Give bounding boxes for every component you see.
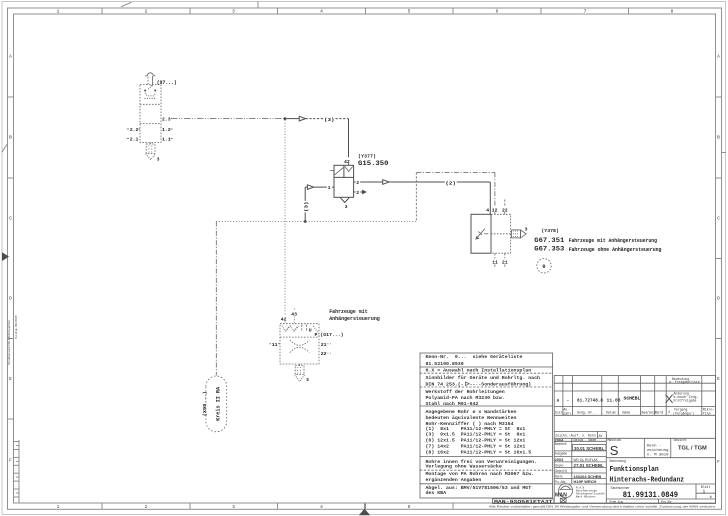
air spring bellows arc upper: [290, 340, 310, 345]
wire vertical to junction C: [304, 187, 306, 221]
label (3) rotated on vertical wire: [302, 201, 309, 213]
svg-text:C: C: [9, 216, 12, 222]
svg-text:F: F: [717, 459, 720, 465]
svg-text:2: 2: [356, 190, 359, 196]
svg-text:81.52100.8930: 81.52100.8930: [426, 361, 464, 367]
svg-text:11: 11: [272, 342, 278, 348]
svg-text:E: E: [717, 376, 720, 382]
svg-text:(1) 8x1 PA11/12-PHLY = St: (1) 8x1 PA11/12-PHLY = St 8x1: [426, 426, 526, 432]
wire junction A to arrow: [285, 118, 299, 120]
notes table row line 2 dashed: [420, 372, 553, 374]
left band row letters: [9, 54, 12, 464]
svg-text:G15.350: G15.350: [358, 160, 389, 168]
svg-text:(3): (3): [303, 201, 309, 212]
port 42 stub: [348, 163, 350, 165]
svg-text:C: C: [717, 216, 720, 222]
relay valve G15.350 body: [334, 165, 354, 197]
svg-text:WD Zg. RUFLAK: WD Zg. RUFLAK: [574, 458, 599, 462]
svg-text:Kreis II RA: Kreis II RA: [216, 386, 222, 421]
port 2 plugged label: [356, 189, 361, 196]
revision header labels: [555, 407, 664, 415]
svg-text:des KBA: des KBA: [426, 490, 447, 496]
notes table row line 3 dashed: [420, 386, 553, 388]
wire arrow to label (3) dashed: [306, 118, 323, 120]
svg-text:A: A: [9, 54, 12, 60]
port 1 label: [327, 184, 332, 191]
svg-text:Rohr-Kennziffer ( ) nach M3164: Rohr-Kennziffer ( ) nach M3164: [426, 421, 514, 427]
svg-text:Datum: Datum: [574, 438, 584, 442]
drawing standard row text: [555, 434, 602, 438]
MAN logo bridge: [560, 486, 572, 489]
check valve inside (97...): [144, 85, 156, 99]
svg-text:(6) 12x1.5 PA11/12-PHLY = St: (6) 12x1.5 PA11/12-PHLY = St 12x1: [426, 438, 526, 444]
revision bubble circle: [537, 259, 551, 273]
bottom band column numbers: [57, 504, 411, 510]
svg-text:Datum: Datum: [606, 411, 616, 415]
notes table row line 1: [420, 366, 553, 368]
air spring unit diagonal: [313, 326, 318, 334]
svg-text:B: B: [9, 135, 12, 141]
svg-text:2.3: 2.3: [162, 117, 171, 123]
air spring port 22 label: [321, 351, 331, 357]
svg-text:D: D: [717, 296, 720, 302]
bottom band column ticks: [102, 503, 453, 509]
svg-text:(Y377): (Y377): [358, 153, 376, 159]
main grid h-line under kennzeichnung: [606, 457, 715, 459]
svg-text:Werk München: Werk München: [576, 494, 596, 498]
svg-text:Werkstoff der Rohrleitungen: Werkstoff der Rohrleitungen: [426, 389, 505, 395]
MAN logo small stamp: [560, 498, 566, 502]
junction C dot: [304, 220, 307, 223]
Y378 actuator symbol in left cell: [476, 229, 489, 239]
ers fuer divider: [658, 499, 660, 504]
svg-text:Hinterachs-Redundanz: Hinterachs-Redundanz: [610, 477, 685, 485]
air spring port 11 label: [269, 342, 280, 348]
air spring unit port 43 stubs: [293, 309, 295, 324]
microfilm cell label: [703, 407, 715, 415]
revision table h-line 3: [554, 405, 715, 407]
svg-text:21: 21: [321, 342, 327, 348]
svg-text:B: B: [717, 135, 720, 141]
air spring unit internal stubs: [302, 325, 307, 332]
svg-text:Anhängersteuerung: Anhängersteuerung: [329, 316, 380, 322]
svg-text:Tol.-Ang. ISO 8015: Tol.-Ang. ISO 8015: [14, 315, 18, 339]
svg-text:F: F: [9, 458, 12, 464]
svg-text:Montage von PA Rohren nach M30: Montage von PA Rohren nach M3067 bzw.: [426, 471, 535, 477]
svg-text:2: 2: [145, 504, 148, 510]
left margin graduation ruler: [14, 440, 20, 503]
svg-text:Norm: Norm: [656, 411, 664, 415]
main grid top line: [554, 437, 715, 439]
port 2 plugged stub: [354, 190, 366, 193]
G15.350 pilot section divider: [334, 176, 354, 178]
svg-text:5: 5: [408, 9, 411, 15]
svg-text:27.01 SCHEBL: 27.01 SCHEBL: [574, 463, 605, 468]
notes table row line 7: [420, 483, 553, 485]
svg-text:Gepr.(H): Gepr.(H): [555, 469, 567, 473]
air spring unit dashed enclosure: [280, 324, 319, 364]
svg-text:4: 4: [320, 9, 323, 15]
Y378 port labels 4 12: [486, 207, 489, 214]
svg-text:P.(G17...): P.(G17...): [315, 332, 344, 338]
svg-text:ergänzenden Angaben: ergänzenden Angaben: [426, 477, 482, 483]
right band row letters: [717, 54, 720, 466]
wire corner down to port 42 of G15.350: [348, 119, 350, 158]
bearbeiter date box: [573, 445, 607, 451]
air spring silencer below: [295, 364, 305, 381]
main grid h-line under sachnummer: [606, 498, 715, 500]
svg-text:Ertei. Aus.: Ertei. Aus.: [610, 500, 625, 504]
svg-text:21: 21: [502, 259, 508, 265]
svg-text:81.99131.0849: 81.99131.0849: [623, 490, 678, 500]
svg-text:2003: 2003: [555, 457, 564, 462]
svg-text:(7) 14x2 PA11/12-PHLY = St: (7) 14x2 PA11/12-PHLY = St 12x1: [426, 444, 526, 450]
notes table row line 4: [420, 405, 553, 407]
svg-text:3: 3: [232, 504, 235, 510]
svg-text:-: -: [567, 399, 570, 404]
svg-text:Fahrzeuge mit: Fahrzeuge mit: [329, 309, 368, 315]
svg-text:3: 3: [157, 157, 160, 163]
junction A: [284, 117, 287, 120]
svg-text:zeichnung: zeichnung: [647, 448, 669, 453]
svg-text:4: 4: [668, 410, 670, 414]
svg-text:160204 SCHEB: 160204 SCHEB: [574, 474, 602, 479]
notes table row line 5: [420, 455, 553, 457]
test port connector on top of (97...): [145, 73, 155, 85]
svg-text:Norm: Norm: [555, 474, 563, 478]
svg-text:Benennung: Benennung: [610, 459, 627, 463]
notes table border: [420, 353, 553, 498]
blatt box border: [696, 484, 716, 499]
svg-text:bedeuten äquivalente Nennweite: bedeuten äquivalente Nennweiten: [426, 415, 517, 421]
svg-text:0.X = Auswahl nach Installatio: 0.X = Auswahl nach Installationsplan: [426, 368, 532, 374]
pilot net: dash-dot drop to port 12: [494, 173, 496, 206]
svg-text:(97...): (97...): [157, 80, 177, 86]
svg-text:film: film: [703, 411, 711, 415]
valve unit (97...) dashed enclosure: [140, 85, 161, 143]
svg-text:Gewicht: Gewicht: [674, 438, 687, 442]
main grid v-line date col: [571, 438, 573, 484]
notes table Sonderausführung arrow symbol: [466, 382, 470, 386]
svg-text:Ausgabe: Ausgabe: [555, 452, 568, 456]
revision table h-line 1: [554, 382, 715, 384]
svg-text:(3): (3): [324, 117, 335, 123]
svg-text:E: E: [9, 376, 12, 382]
kennzeichnung cell text: [647, 445, 669, 458]
svg-text:Name: Name: [623, 411, 631, 415]
title block outer border: [554, 376, 715, 504]
svg-text:Blatt: Blatt: [701, 485, 711, 489]
header row labels: [574, 438, 687, 442]
circuit capsule Kreis II RA outline: [206, 376, 227, 432]
svg-text:4: 4: [320, 504, 323, 510]
svg-text:Fahrzeuge ohne Anhängersteueru: Fahrzeuge ohne Anhängersteuerung: [569, 247, 662, 253]
fold center triangle bottom: [359, 503, 370, 516]
svg-text:SCHEBL: SCHEBL: [624, 396, 641, 402]
svg-text:1.2: 1.2: [162, 127, 171, 133]
svg-text:Gepro: Gepro: [555, 463, 564, 467]
Y378 bottom port stubs: [495, 253, 505, 268]
svg-text:3: 3: [232, 9, 235, 15]
svg-text:zahl: zahl: [563, 411, 571, 415]
svg-text:1: 1: [703, 489, 706, 495]
fold mark right tick: [722, 152, 727, 154]
svg-text:3: 3: [306, 377, 309, 383]
right band row ticks: [716, 97, 722, 339]
revision table v-lines: [563, 376, 702, 416]
valve unit (97...) internal section line 2: [140, 123, 161, 125]
notes table text: [426, 354, 541, 496]
svg-text:(Y378): (Y378): [541, 228, 559, 234]
svg-text:A: A: [717, 54, 720, 60]
wire to port 1 elbow with arrow: [305, 185, 334, 190]
svg-text:AV: AV: [599, 434, 603, 438]
svg-text:(2): (2): [445, 180, 456, 186]
svg-text:1: 1: [57, 9, 60, 15]
port 1.1 label: [162, 137, 173, 143]
svg-text:8: 8: [671, 9, 674, 15]
G15.350 pilot section vertical divider: [343, 165, 345, 177]
svg-text:3: 3: [525, 227, 528, 233]
revision row a entries: [557, 398, 621, 404]
svg-text:TGL / TGM: TGL / TGM: [678, 445, 707, 451]
G15.350 pilot actuator diagonal: [335, 168, 344, 175]
main grid v-line massstab right: [643, 438, 645, 457]
svg-text:5: 5: [408, 504, 411, 510]
svg-text:Alle Rechte vorbehalten gemäß: Alle Rechte vorbehalten gemäß DIN 34 Wei…: [489, 504, 716, 508]
release legend texts: [668, 377, 700, 416]
top band column numbers: [57, 9, 674, 15]
air spring unit check valve V 2: [290, 326, 299, 332]
trailer control valve Y378 body left cell: [471, 214, 491, 253]
G15.350 pilot stub left: [330, 170, 334, 172]
fold mark top tick: [257, 2, 259, 9]
svg-text:DIN 74 253.(- --·-Sonderausfü: DIN 74 253.(- --·-Sonderausführung): [426, 382, 532, 388]
air spring bellows arc lower: [290, 347, 310, 352]
svg-text:Funktionsplan: Funktionsplan: [610, 466, 660, 474]
svg-text:d. Freigabeliste: d. Freigabeliste: [669, 380, 700, 384]
port 2.2 label: [127, 127, 140, 133]
svg-text:(X98...): (X98...): [202, 391, 208, 416]
svg-text:W: W: [710, 495, 712, 499]
svg-text:Kenn-Nr. 0... siehe Geräteli: Kenn-Nr. 0... siehe Geräteliste: [426, 354, 523, 360]
port 2 label: [356, 179, 361, 186]
svg-text:81.72748.8: 81.72748.8: [577, 398, 603, 404]
svg-text:G67.351: G67.351: [534, 237, 564, 245]
air spring unit internal dashed line: [280, 336, 319, 338]
svg-text:2.2: 2.2: [130, 127, 139, 133]
main grid v-line admin/title split: [605, 438, 607, 503]
wire from port 2.3 to junction A (dash-dot-dot): [171, 118, 285, 120]
top band column ticks: [102, 8, 629, 14]
svg-text:Angegebene Rohr ø x Wandstärke: Angegebene Rohr ø x Wandstärken: [426, 409, 517, 415]
svg-text:Maßstab: Maßstab: [608, 438, 621, 442]
svg-text:3: 3: [345, 204, 348, 210]
MAN logo circle: [559, 484, 573, 498]
svg-text:0: 0: [542, 264, 545, 270]
port 22 stub into body: [504, 212, 506, 214]
svg-text:Sinnbilder für Geräte und Rohr: Sinnbilder für Geräte und Rohrltg. nach: [426, 375, 541, 381]
svg-text:Verlegung ohne Wassersäcke: Verlegung ohne Wassersäcke: [426, 464, 502, 470]
air spring unit port 42 stub: [284, 322, 286, 324]
port 2.1 label: [127, 137, 139, 143]
main grid v-line kennzeichnung right: [670, 438, 672, 457]
svg-text:1: 1: [328, 185, 331, 191]
svg-text:H19P WRCH: H19P WRCH: [574, 479, 597, 484]
svg-text:1.1: 1.1: [162, 137, 171, 143]
svg-text:n. M 3010: n. M 3010: [647, 454, 669, 458]
svg-text:Name: Name: [589, 438, 597, 442]
valve unit (97...) internal section line 1: [140, 103, 161, 105]
row 2003: [555, 457, 599, 462]
svg-text:D: D: [9, 296, 12, 302]
label (2) on wire: [445, 179, 457, 186]
port 2 wire right with arrow: [354, 180, 491, 185]
svg-text:42: 42: [281, 317, 287, 323]
svg-text:G67.353: G67.353: [534, 246, 564, 254]
port 22 stub dashed above: [504, 200, 506, 207]
main grid h-line above sachnummer: [554, 483, 715, 485]
fold mark left diagonal: [2, 144, 7, 152]
admin rows h-lines: [554, 441, 606, 478]
svg-text:Bearbeit: Bearbeit: [555, 442, 567, 446]
notes table row line 6 dashed: [420, 469, 553, 471]
Y378 body right cell dashed: [491, 214, 511, 253]
wire label (3) to corner dashed: [336, 118, 349, 120]
po-abt row: [555, 479, 597, 484]
svg-text:2.1: 2.1: [130, 137, 139, 143]
fold center triangle left: [2, 252, 9, 261]
flow arrow on wire (3): [299, 116, 305, 121]
drawing standard row border: [554, 431, 606, 438]
wire dash-dot down to circuit capsule: [215, 222, 217, 376]
release X mark: [666, 395, 673, 403]
svg-text:30.01 SCHEBL: 30.01 SCHEBL: [574, 446, 605, 451]
svg-text:Polyamid-PA nach M3230 bzw.: Polyamid-PA nach M3230 bzw.: [426, 395, 505, 401]
pilot net: vertical dotted line from junction A down past B: [284, 120, 286, 315]
svg-text:(3) 9x1.5 PA11/12-PHLY = St: (3) 9x1.5 PA11/12-PHLY = St 8x1: [426, 432, 526, 438]
svg-text:22: 22: [321, 351, 327, 357]
norm row: [555, 474, 602, 479]
Y378 internal dashed mid line: [491, 233, 512, 235]
pilot net: dash-dot horizontal to Y378: [416, 172, 495, 174]
svg-text:Kenn -: Kenn -: [647, 445, 661, 449]
svg-text:7: 7: [584, 9, 587, 15]
wire (2) corner down to Y378 port 4: [489, 182, 491, 214]
svg-text:2: 2: [356, 180, 359, 186]
svg-text:1: 1: [57, 504, 60, 510]
svg-text:U: U: [309, 327, 312, 333]
silencer below (97...): [146, 143, 156, 160]
svg-text:a: a: [557, 399, 560, 404]
left band row ticks: [8, 97, 14, 419]
company name lines: [576, 486, 605, 498]
air spring port 21 label: [321, 342, 331, 348]
svg-text:Abgel. aus: BMV/51V781596/53 u: Abgel. aus: BMV/51V781596/53 und MGT: [426, 485, 532, 491]
svg-text:Ers. für:: Ers. für:: [661, 500, 672, 504]
pilot net: horizontal dotted line through junction B and C: [216, 221, 416, 223]
svg-text:(8) 16x2 PA11/12-PHLY = St: (8) 16x2 PA11/12-PHLY = St 16x1.5: [426, 450, 532, 456]
document code box: [493, 499, 555, 504]
G15.350 check valve V: [345, 166, 353, 171]
revision table h-line 2: [554, 390, 715, 392]
air spring unit check valve V 1: [282, 326, 291, 332]
svg-text:Fahrzeuge mit Anhängersteuerun: Fahrzeuge mit Anhängersteuerung: [569, 238, 657, 244]
svg-text:2: 2: [145, 9, 148, 15]
svg-text:Erstfreigabe: Erstfreigabe: [674, 399, 697, 403]
pilot net: dashed vertical riser right: [415, 173, 417, 222]
svg-text:4: 4: [486, 207, 489, 213]
blatt box labels: [701, 485, 712, 499]
port 12 stub into body: [494, 212, 496, 214]
svg-text:11: 11: [492, 259, 498, 265]
svg-text:Ändg.-Nr.: Ändg.-Nr.: [577, 411, 594, 415]
svg-text:(Vorgänger): (Vorgänger): [673, 411, 694, 415]
G15.350 exhaust V: [340, 197, 349, 202]
fold mark top diagonal: [121, 2, 132, 7]
gepro row: [555, 463, 604, 468]
svg-text:6: 6: [496, 9, 499, 15]
svg-text:Stahl nach M01-942: Stahl nach M01-942: [426, 401, 479, 407]
svg-text:11.03: 11.03: [607, 398, 621, 404]
port 1.2 label: [162, 127, 173, 133]
port 12 label: [491, 207, 497, 214]
svg-text:MAN: MAN: [555, 492, 567, 498]
svg-text:S: S: [610, 443, 619, 458]
revision table bottom line: [554, 414, 715, 416]
svg-text:Schutzvermerk ISO 16016 beacht: Schutzvermerk ISO 16016 beachten: [7, 319, 11, 365]
Y378 exhaust silencer: [512, 230, 527, 238]
